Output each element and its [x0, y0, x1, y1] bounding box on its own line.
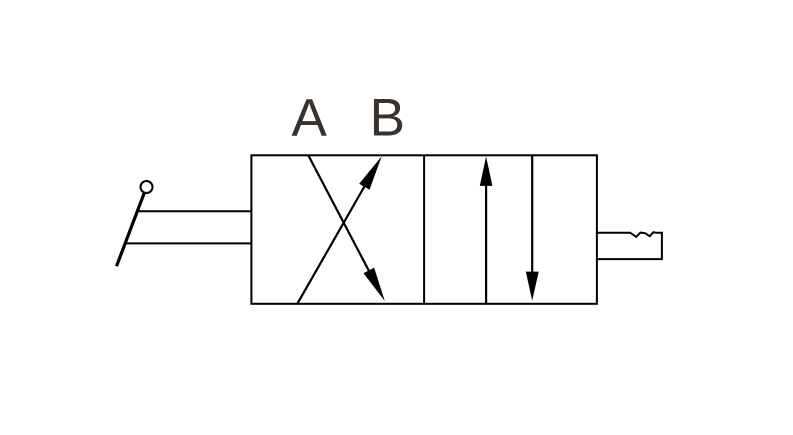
svg-text:A: A: [292, 89, 328, 148]
svg-text:B: B: [370, 89, 405, 148]
